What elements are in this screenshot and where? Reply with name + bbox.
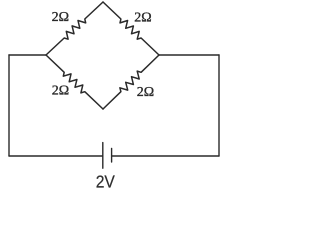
svg-text:2Ω: 2Ω [52, 10, 69, 25]
wire top-right horizontal from node R [159, 54, 219, 56]
svg-text:2V: 2V [96, 171, 116, 191]
resistor R4 2ohm (lower-right branch) [103, 55, 159, 109]
wire right vertical (outer loop right side) [218, 55, 220, 156]
resistor R3 2ohm (lower-left branch) [46, 55, 103, 109]
wire top-left horizontal to node L [9, 54, 46, 56]
svg-text:2Ω: 2Ω [134, 11, 151, 26]
svg-text:2Ω: 2Ω [137, 85, 154, 100]
wire bottom-left to battery [9, 155, 103, 157]
resistor R1 2ohm (upper-left branch) [46, 2, 103, 55]
wire left vertical (outer loop left side) [8, 55, 10, 156]
battery V1 short plate (negative) [111, 148, 113, 162]
battery V1 long plate (positive) [102, 143, 104, 169]
svg-text:2Ω: 2Ω [52, 83, 69, 98]
resistor R2 2ohm (upper-right branch) [103, 2, 159, 55]
wire bottom-right from battery [112, 155, 219, 157]
